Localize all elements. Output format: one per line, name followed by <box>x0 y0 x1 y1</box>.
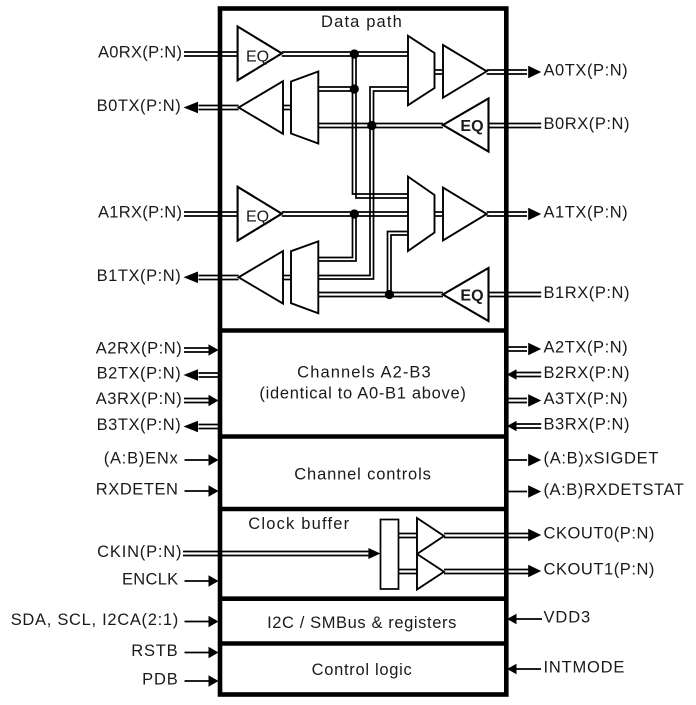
wire A0TX output pair <box>487 70 527 74</box>
outer block boundary <box>220 9 506 695</box>
arrow B1TX output <box>184 272 199 284</box>
svg-text:A0RX(P:N): A0RX(P:N) <box>98 44 182 62</box>
wire B0TX mux to driver pair <box>283 106 291 110</box>
driver CKOUT1 (triangle) <box>417 554 444 590</box>
wire A2RX(P:N) input pair <box>184 348 209 352</box>
wire CKOUT0 output pair <box>444 534 529 538</box>
svg-text:A3TX(P:N): A3TX(P:N) <box>544 390 629 408</box>
svg-text:A2RX(P:N): A2RX(P:N) <box>96 340 183 358</box>
wire A0 EQ output pair to A0TX mux <box>282 52 408 56</box>
wire B2TX(P:N) output pair <box>199 373 221 377</box>
svg-text:B0RX(P:N): B0RX(P:N) <box>544 115 631 133</box>
arrow RXDETEN input into block <box>209 485 219 497</box>
wire RSTB input <box>185 652 210 654</box>
wire (A:B)RXDETSTAT output <box>506 491 527 493</box>
arrow A1TX output <box>528 208 541 220</box>
arrow CKOUT0 output <box>528 529 541 541</box>
svg-text:A0TX(P:N): A0TX(P:N) <box>544 62 629 80</box>
svg-text:B2TX(P:N): B2TX(P:N) <box>97 365 182 383</box>
wire A1TX mux to driver pair <box>435 212 444 216</box>
mux B1TX (trapezoid) <box>291 241 318 313</box>
wire SDA SCL I2CA input <box>185 621 210 623</box>
svg-text:A3RX(P:N): A3RX(P:N) <box>96 390 183 408</box>
wire ENCLK input <box>185 580 210 582</box>
svg-text:B1TX(P:N): B1TX(P:N) <box>97 267 182 285</box>
arrow PDB into block <box>209 675 219 687</box>
wire splitter to CKOUT0 driver pair <box>399 534 418 538</box>
node dot3 B0 bus tap <box>367 121 376 130</box>
EQ A0 (input equalizer) <box>238 27 282 81</box>
node dot1 A0 bus tap <box>350 49 359 58</box>
svg-text:EQ: EQ <box>246 48 269 65</box>
svg-text:CKIN(P:N): CKIN(P:N) <box>97 543 182 561</box>
node dot4 A1 bus tap <box>350 209 359 218</box>
svg-text:CKOUT1(P:N): CKOUT1(P:N) <box>544 561 655 579</box>
wire B1 EQ output pair to B1TX mux <box>318 293 443 297</box>
node dot2 A0 bus tap to B0TX <box>350 84 359 93</box>
svg-text:B3TX(P:N): B3TX(P:N) <box>97 416 182 434</box>
svg-text:A1TX(P:N): A1TX(P:N) <box>544 204 629 222</box>
svg-text:EQ: EQ <box>460 288 483 305</box>
svg-text:Data path: Data path <box>321 13 403 31</box>
divider channel-controls / clock-buffer <box>220 507 506 512</box>
wire CKIN input pair <box>183 552 369 556</box>
svg-text:INTMODE: INTMODE <box>544 659 626 677</box>
arrow (A:B)xSIGDET output <box>528 454 541 466</box>
arrow A2RX(P:N) input into block <box>209 344 219 356</box>
svg-text:Channels A2-B3: Channels A2-B3 <box>297 364 432 382</box>
svg-text:B3RX(P:N): B3RX(P:N) <box>544 416 631 434</box>
wire B0RX input pair <box>489 124 542 128</box>
wire B2RX(P:N) input pair <box>516 373 541 377</box>
svg-text:(A:B)RXDETSTAT: (A:B)RXDETSTAT <box>544 481 685 499</box>
wire bus B1 up to A1TX mux (inner) <box>391 235 408 295</box>
wire B1RX input pair <box>489 293 542 297</box>
wire A3TX(P:N) output pair <box>506 399 527 403</box>
arrow CKOUT1 output <box>528 565 541 577</box>
wire A3RX(P:N) input pair <box>184 399 209 403</box>
arrow CKIN into clock buffer <box>368 548 380 559</box>
svg-text:A2TX(P:N): A2TX(P:N) <box>544 339 629 357</box>
svg-text:SDA, SCL, I2CA(2:1): SDA, SCL, I2CA(2:1) <box>11 611 179 629</box>
wire A1RX input pair <box>184 212 238 216</box>
wire bus B0 up to A0TX mux (inner) <box>374 91 409 126</box>
svg-text:RXDETEN: RXDETEN <box>96 481 179 499</box>
wire bus A0 vertical to A1 mux (inner) <box>356 54 408 198</box>
mux A0TX (trapezoid) <box>408 36 435 105</box>
wire bus B0 down to B1TX mux (inner) <box>318 126 370 276</box>
wire A2TX(P:N) output pair <box>506 347 527 351</box>
arrow (A:B)ENx input into block <box>209 454 219 466</box>
svg-text:I2C / SMBus & registers: I2C / SMBus & registers <box>267 614 457 632</box>
svg-text:Clock buffer: Clock buffer <box>248 515 350 533</box>
svg-text:VDD3: VDD3 <box>544 609 592 627</box>
wire bus B0 down to B1TX mux (outer) <box>318 126 373 280</box>
wire (A:B)xSIGDET output <box>506 459 527 461</box>
svg-text:B0TX(P:N): B0TX(P:N) <box>97 97 182 115</box>
wire bus A1 down to B1TX mux (outer) <box>318 214 356 261</box>
driver A1TX (triangle) <box>443 188 487 241</box>
wire bus B1 up to A1TX mux (outer) <box>388 232 409 295</box>
divider data-path / channels-A2-B3 <box>220 328 506 333</box>
divider channels / channel-controls <box>220 434 506 439</box>
arrow B0TX output <box>184 102 199 114</box>
arrow B3RX(P:N) input into block <box>507 421 517 431</box>
wire B1TX mux to driver pair <box>283 276 291 280</box>
EQ B1 (input equalizer) <box>443 268 489 321</box>
driver CKOUT0 (triangle) <box>417 518 444 554</box>
arrow SDA SCL I2CA into block <box>209 616 219 628</box>
arrow INTMODE into block <box>507 664 517 674</box>
driver B1TX (triangle) <box>239 251 283 304</box>
wire A0TX mux to driver pair <box>435 70 444 74</box>
wire VDD3 input <box>516 618 543 620</box>
driver A0TX (triangle) <box>443 45 487 98</box>
wire bus B0 up to A0TX mux (outer) <box>370 87 408 126</box>
svg-text:PDB: PDB <box>142 671 178 689</box>
divider clock-buffer / I2C <box>220 596 506 601</box>
wire A0 bus to B0TX mux top input <box>318 87 354 91</box>
svg-text:B1RX(P:N): B1RX(P:N) <box>544 284 631 302</box>
arrow A3RX(P:N) input into block <box>209 395 219 407</box>
arrow A3TX(P:N) output <box>528 394 541 406</box>
arrow A0TX output <box>528 66 541 78</box>
wire CKOUT1 output pair <box>444 570 529 574</box>
wire B3TX(P:N) output pair <box>199 425 221 429</box>
wire (A:B)ENx input <box>185 459 210 461</box>
mux A1TX (trapezoid) <box>408 177 435 251</box>
clock buffer splitter rectangle <box>381 520 399 590</box>
arrow B3TX(P:N) output <box>184 421 199 433</box>
wire splitter to CKOUT1 driver pair <box>399 570 418 574</box>
svg-text:Channel controls: Channel controls <box>294 465 431 483</box>
wire B0 EQ output pair to B0TX mux <box>318 124 443 128</box>
wire INTMODE input <box>516 668 542 670</box>
wire PDB input <box>185 680 210 682</box>
divider I2C / control-logic <box>220 641 506 646</box>
svg-text:B2RX(P:N): B2RX(P:N) <box>544 364 631 382</box>
arrow VDD3 into block <box>507 614 517 624</box>
svg-text:ENCLK: ENCLK <box>122 571 179 589</box>
svg-text:(A:B)xSIGDET: (A:B)xSIGDET <box>544 450 660 468</box>
arrow A2TX(P:N) output <box>528 343 541 355</box>
arrow ENCLK input into block <box>209 575 219 587</box>
svg-text:RSTB: RSTB <box>131 642 178 660</box>
svg-text:EQ: EQ <box>246 209 269 226</box>
arrow B2TX(P:N) output <box>184 369 199 381</box>
svg-text:EQ: EQ <box>460 118 483 135</box>
EQ B0 (input equalizer) <box>443 99 489 152</box>
svg-text:CKOUT0(P:N): CKOUT0(P:N) <box>544 525 655 543</box>
driver B0TX (triangle) <box>239 81 283 134</box>
node dot5 B1 bus tap <box>385 290 394 299</box>
mux B0TX (trapezoid) <box>291 72 318 144</box>
wire B3RX(P:N) input pair <box>516 424 541 428</box>
wire bus A1 down to B1TX mux (inner) <box>318 214 352 258</box>
wire B1TX output pair <box>199 276 239 280</box>
arrow (A:B)RXDETSTAT output <box>528 485 541 497</box>
svg-text:(A:B)ENx: (A:B)ENx <box>104 450 179 468</box>
wire RXDETEN input <box>185 490 210 492</box>
EQ A1 (input equalizer) <box>238 187 282 241</box>
svg-text:A1RX(P:N): A1RX(P:N) <box>98 204 182 222</box>
wire A0RX input pair <box>184 52 238 56</box>
wire B0TX output pair <box>199 106 239 110</box>
arrow RSTB into block <box>209 647 219 659</box>
wire bus A0 vertical to A1 mux (outer) <box>353 54 409 194</box>
svg-text:Control logic: Control logic <box>312 661 413 679</box>
svg-text:(identical to A0-B1 above): (identical to A0-B1 above) <box>259 384 466 402</box>
wire A1 EQ output pair to A1TX mux <box>282 212 408 216</box>
arrow B2RX(P:N) input into block <box>507 369 517 379</box>
wire A1TX output pair <box>487 212 527 216</box>
